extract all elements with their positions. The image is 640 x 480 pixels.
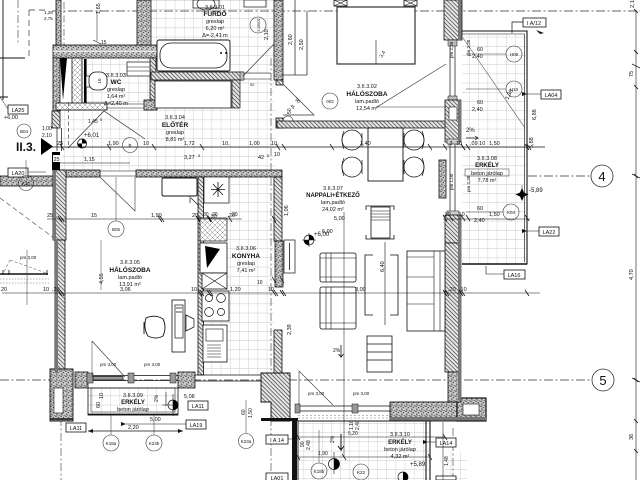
wall bedroom02-living: [277, 121, 447, 128]
wall neighbor band left: [0, 176, 53, 186]
svg-text:2,10: 2,10: [264, 29, 270, 40]
svg-text:LA14: LA14: [440, 441, 453, 447]
dim chain hallway y147: [42, 141, 545, 150]
svg-text:LA25: LA25: [12, 108, 25, 114]
svg-text:Δ=-2,41 m: Δ=-2,41 m: [202, 33, 228, 39]
svg-text:1,50: 1,50: [489, 212, 500, 218]
dim rotated 1,06 kitchen: [284, 205, 290, 216]
terrace door frame: [295, 404, 390, 413]
svg-text:ERKÉLY: ERKÉLY: [388, 438, 412, 446]
wall south bedroom05 segment west: [75, 372, 88, 388]
svg-text:3,00: 3,00: [355, 287, 366, 293]
dim 50 rotated: [287, 108, 293, 114]
level mark +5,89 south: [398, 462, 426, 480]
svg-text:6,88: 6,88: [532, 109, 538, 120]
bubble H09: [466, 46, 522, 62]
sill dashes terrace: [298, 416, 443, 419]
svg-text:Δ=2,40 m: Δ=2,40 m: [104, 101, 128, 107]
wall east sand block: [448, 372, 461, 402]
wall hallway south right part: [136, 170, 282, 177]
svg-text:2%: 2%: [333, 348, 341, 354]
room label WC: [104, 73, 128, 107]
wall WC east / bath west: [150, 58, 156, 105]
svg-text:1,90: 1,90: [151, 213, 162, 219]
bubble K09 southeast: [436, 476, 456, 480]
floor tiles bathroom: [151, 0, 274, 74]
svg-text:1,06: 1,06: [284, 205, 290, 216]
svg-text:2,75: 2,75: [44, 16, 53, 21]
axis line top horizontal: [52, 10, 640, 12]
dim 5,08 text: [184, 394, 195, 400]
desk bedroom05: [172, 300, 194, 352]
svg-text:7,78 m²: 7,78 m²: [478, 178, 497, 184]
wall stair room left: [56, 0, 64, 52]
dim rotated 4,55 bedroom05: [99, 240, 105, 290]
svg-text:lam.padló: lam.padló: [118, 275, 142, 281]
window swing bedroom02 dashed: [377, 64, 446, 107]
svg-text:K04: K04: [507, 210, 516, 215]
bubble K18b: [311, 430, 327, 479]
svg-text:H09: H09: [510, 52, 519, 57]
door bedroom02 swing: [283, 84, 314, 126]
bubble B05 bedroom door: [108, 177, 124, 237]
svg-text:,3: ,3: [448, 141, 453, 147]
svg-text:1,28: 1,28: [44, 10, 53, 15]
armchair lower: [320, 287, 356, 329]
svg-text:K20: K20: [22, 181, 31, 186]
dim 5,00 bottom: [96, 393, 161, 423]
balcony south door frame posts: [426, 421, 453, 480]
svg-text:2,05/01: 2,05/01: [256, 18, 261, 32]
svg-text:pm 3,00: pm 3,00: [353, 391, 370, 396]
wall bedroom02 west upper: [276, 80, 283, 85]
pantry closet with lamp: [204, 177, 229, 203]
dim 92 bath door: [250, 82, 255, 87]
svg-text:2,60: 2,60: [288, 34, 294, 45]
svg-text:beton járólap: beton járólap: [117, 407, 149, 413]
neighbor balcony west edge: [0, 250, 49, 305]
door balcony09 swing: [92, 341, 125, 377]
svg-text:5,00: 5,00: [150, 417, 161, 423]
svg-text:LA19: LA19: [190, 423, 203, 429]
room label ERKELY09: [117, 393, 149, 413]
svg-text:10: 10: [274, 152, 280, 158]
svg-text:pm 2,38: pm 2,38: [449, 41, 454, 58]
svg-text:LA11: LA11: [192, 404, 204, 410]
wall piece right of WC door: [144, 100, 157, 110]
dim bottom right rotated: [443, 422, 450, 480]
wall stair room right: [137, 0, 151, 52]
svg-text:1,90: 1,90: [108, 141, 119, 147]
svg-text:WC: WC: [111, 79, 122, 86]
svg-text:B04: B04: [20, 129, 29, 134]
svg-text:3.II.3.08: 3.II.3.08: [477, 156, 497, 162]
dining chair bottom-left: [342, 157, 362, 177]
dim pm texts south: [100, 362, 370, 396]
wall west long: [53, 170, 66, 240]
svg-text:4: 4: [598, 169, 605, 184]
svg-text:K23b: K23b: [149, 441, 160, 446]
bench ladder: [367, 336, 392, 372]
svg-text:4,70: 4,70: [629, 269, 635, 280]
dim line balcony10: [296, 451, 432, 460]
shaft lines right of bathroom: [282, 0, 307, 75]
svg-text:greslap: greslap: [206, 19, 224, 25]
level mark +6,01 hallway: [78, 133, 100, 148]
svg-text:6,40: 6,40: [380, 261, 386, 272]
terrace door swing: [299, 371, 333, 405]
wall east pier lower: [445, 215, 461, 243]
svg-text:1,20: 1,20: [230, 287, 241, 293]
wall spur right of closet: [232, 80, 240, 108]
floor tiles balcony south: [298, 421, 430, 480]
svg-text:HÁLÓSZOBA: HÁLÓSZOBA: [109, 265, 150, 274]
tag LA11 south: [188, 401, 208, 410]
svg-text:1,50: 1,50: [489, 141, 500, 147]
door hallway-bedroom05 threshold: [100, 171, 136, 176]
room label KONYHA: [232, 246, 260, 274]
radiator living east: [439, 160, 446, 198]
bubble B04 left: [17, 124, 31, 138]
door WC threshold: [107, 104, 152, 108]
axis vertical bottom left: [60, 418, 62, 480]
axis 5 bubble: [592, 369, 614, 391]
svg-text:2,40: 2,40: [355, 420, 361, 430]
svg-text:LA16: LA16: [508, 273, 521, 279]
svg-text:10: 10: [456, 141, 462, 147]
svg-text:1,15: 1,15: [84, 157, 95, 163]
svg-text:2,10: 2,10: [42, 133, 52, 139]
svg-text:2%: 2%: [466, 128, 475, 134]
svg-text:60: 60: [477, 47, 483, 53]
tag IA12: [512, 18, 546, 34]
bed bedroom02: [337, 7, 415, 64]
svg-text:2,20: 2,20: [128, 425, 139, 431]
svg-text:LA01: LA01: [271, 476, 284, 480]
dim bubble hallway circle: [123, 138, 138, 153]
wall east pier mid: [445, 100, 461, 142]
svg-text:3.II.3.06: 3.II.3.06: [236, 246, 256, 252]
room label NAPPALI: [306, 186, 360, 213]
dim balcony east lower: [443, 206, 530, 224]
svg-text:+5,89: +5,89: [410, 462, 426, 468]
svg-text:lam.padló: lam.padló: [321, 200, 345, 206]
svg-text:pm 3,00: pm 3,00: [144, 362, 161, 367]
floor tiles WC: [82, 58, 150, 104]
svg-text:10: 10: [257, 280, 263, 286]
kitchen radiator door: [284, 240, 295, 273]
svg-text:LA22: LA22: [543, 230, 556, 236]
svg-text:I A/12: I A/12: [527, 21, 541, 27]
slope arrow living south: [333, 345, 344, 357]
svg-text:60: 60: [477, 100, 483, 106]
coffee table: [365, 242, 398, 325]
svg-text:B05: B05: [112, 227, 121, 232]
svg-text:LA11: LA11: [70, 426, 82, 432]
wall bedroom02 west lower stub: [276, 118, 283, 128]
svg-text:2%: 2%: [330, 435, 336, 443]
dim rotated 2,10 bath door: [264, 29, 270, 40]
wall bathroom east: [274, 0, 283, 80]
bubble 205 bathroom: [250, 17, 266, 33]
right edge dimension line: [629, 0, 640, 480]
dim 2,20 balcony09: [88, 425, 183, 433]
svg-text:,10: ,10: [457, 212, 465, 218]
dashed door axis line: [68, 102, 70, 147]
wall kitchen east upper: [274, 177, 283, 287]
wall east segment top: [444, 0, 462, 40]
tag LA04: [522, 90, 561, 99]
slope arrow balcony10: [330, 434, 344, 450]
axis 4 bubble: [591, 165, 613, 187]
wall pier south bedroom05: [178, 372, 195, 388]
svg-text:10: 10: [268, 287, 274, 293]
svg-text:1,40: 1,40: [360, 141, 371, 147]
door balcony09 frame: [87, 373, 178, 383]
wall west balcony corner L: [50, 369, 73, 421]
tag LA20: [8, 168, 46, 177]
wall west entrance top: [52, 111, 60, 128]
dim texts living vertical 5,00 6,00: [322, 212, 345, 457]
svg-text:pm 1,00: pm 1,00: [449, 173, 454, 190]
svg-text:FÜRDŐ: FÜRDŐ: [203, 9, 226, 18]
wall WC west: [72, 58, 87, 105]
svg-text:greslap: greslap: [107, 87, 125, 93]
dim 10 kitchen east wall: [257, 277, 284, 286]
room label FURDO: [202, 5, 228, 39]
axis vertical through kitchen: [270, 58, 272, 480]
svg-text:NAPPALI+ÉTKEZŐ: NAPPALI+ÉTKEZŐ: [306, 191, 360, 199]
insulation strip south wall east: [390, 417, 486, 421]
wall west long lower: [55, 240, 65, 373]
svg-text:5,08: 5,08: [184, 394, 195, 400]
svg-text:10: 10: [191, 287, 197, 293]
svg-text:20: 20: [232, 212, 238, 218]
balcony east slope diagonal: [463, 38, 525, 128]
tag LA16 east: [486, 266, 525, 279]
balcony south outline: [261, 420, 430, 480]
dim bottom mid rotated 60 150: [241, 408, 361, 450]
top small texts left: [44, 10, 53, 21]
toilet WC: [86, 72, 107, 90]
wall kitchen east lower: [274, 330, 282, 375]
svg-text:beton járólap: beton járólap: [384, 447, 416, 453]
svg-text:+6,01: +6,01: [84, 133, 100, 139]
svg-text:LA04: LA04: [545, 93, 558, 99]
svg-text:12,54 m²: 12,54 m²: [356, 106, 378, 112]
tag LA11 west: [66, 423, 86, 432]
svg-text:1,72: 1,72: [184, 141, 195, 147]
svg-text:36: 36: [629, 434, 635, 440]
svg-text:5,20: 5,20: [348, 431, 358, 437]
window east 2: [447, 139, 459, 216]
svg-text:60: 60: [477, 206, 483, 212]
svg-text:2,40: 2,40: [472, 107, 483, 113]
svg-text:25: 25: [57, 141, 63, 147]
svg-text:II.3.: II.3.: [16, 140, 36, 154]
svg-text:ERKÉLY: ERKÉLY: [475, 161, 499, 169]
nightstand left: [334, 0, 347, 6]
dim second row hallway: [60, 152, 280, 163]
svg-text:30: 30: [203, 212, 209, 218]
svg-text:1,45: 1,45: [88, 119, 98, 125]
svg-text:60: 60: [241, 409, 247, 415]
bathtub: [157, 40, 230, 71]
svg-text:,09 10: ,09 10: [470, 141, 485, 147]
svg-text:K23a: K23a: [241, 439, 252, 444]
svg-text:pm 3,00: pm 3,00: [308, 391, 325, 396]
svg-text:ELŐTÉR: ELŐTÉR: [162, 120, 189, 129]
chair bedroom05: [144, 316, 165, 338]
svg-text:3.II.3.02: 3.II.3.02: [357, 84, 377, 90]
svg-text:1,90: 1,90: [318, 451, 328, 457]
svg-text:B: B: [128, 143, 131, 148]
wash basin: [193, 0, 219, 10]
armchair upper: [320, 253, 356, 282]
kitchen counter low: [203, 325, 227, 362]
wall WC south: [56, 103, 107, 110]
svg-text:-5,89: -5,89: [529, 188, 543, 194]
dim chain bedroom05 y219: [47, 213, 242, 222]
level marker balcony09: [162, 394, 178, 416]
svg-text:2,40: 2,40: [474, 218, 485, 224]
svg-text:+6,00: +6,00: [4, 115, 18, 121]
svg-text:K22: K22: [357, 470, 366, 475]
projection dashed diagonal upper left: [0, 198, 58, 241]
bubble K22: [353, 464, 369, 480]
balcony southwest outline: [88, 388, 178, 415]
svg-text:10: 10: [97, 78, 102, 84]
wall southeast corner cap: [457, 398, 486, 421]
svg-text:pm 2,38: pm 2,38: [466, 39, 471, 56]
axis 5 line horizontal: [0, 379, 592, 381]
floor tiles patch southeast: [445, 452, 467, 480]
tag LA19: [121, 420, 206, 429]
bubble K23a: [239, 400, 254, 449]
dim pm rotated east: [449, 39, 471, 192]
svg-text:60: 60: [96, 402, 102, 408]
dim balcony east vertical 5,88: [529, 109, 538, 148]
svg-text:42: 42: [258, 155, 264, 161]
wall west beside WC: [53, 58, 60, 111]
svg-text:10: 10: [43, 287, 49, 293]
wall kitchen west: [198, 177, 204, 375]
svg-text:KONYHA: KONYHA: [232, 253, 260, 260]
svg-text:1,48: 1,48: [444, 456, 450, 466]
kitchen boiler square: [200, 218, 227, 273]
svg-text:10: 10: [143, 141, 149, 147]
svg-text:2%: 2%: [154, 394, 160, 402]
svg-text:,30: ,30: [52, 287, 60, 293]
hallway wardrobe: [162, 178, 199, 206]
svg-text:3.II.3.07: 3.II.3.07: [323, 186, 343, 192]
svg-text:ERKÉLY: ERKÉLY: [121, 398, 145, 406]
svg-text:25: 25: [54, 157, 60, 163]
svg-text:,20: ,20: [448, 287, 456, 293]
svg-text:2,48: 2,48: [306, 440, 312, 450]
level marker dot south balcony: [329, 452, 340, 474]
axis 4 line horizontal: [528, 175, 591, 177]
axis vertical top left stub: [17, 0, 19, 44]
svg-text:20: 20: [1, 287, 7, 293]
svg-text:beton járólap: beton járólap: [471, 171, 503, 177]
dining chair bottom-right: [404, 157, 424, 177]
dining chair top-left: [342, 130, 362, 150]
svg-text:3.II.3.04: 3.II.3.04: [165, 115, 185, 121]
door bedroom05 swing: [100, 177, 135, 211]
svg-text:3,27: 3,27: [184, 155, 195, 161]
kitchen stove: [202, 291, 229, 321]
level mark +6,00 living: [302, 232, 330, 247]
tag LA22: [522, 227, 559, 236]
svg-text:lam.padló: lam.padló: [355, 99, 379, 105]
tv cabinet: [366, 206, 394, 239]
room label ERKELY08: [465, 156, 509, 184]
tag LA01 bottom: [266, 473, 288, 480]
dim rotated 2,60 shaft: [288, 34, 294, 45]
svg-text:1,00: 1,00: [42, 126, 52, 132]
dim 30 20 pantry: [203, 212, 238, 218]
tag IA14 mid: [266, 435, 298, 444]
door entrance leaf black: [52, 128, 62, 170]
svg-text:greslap: greslap: [237, 261, 255, 267]
svg-text:5: 5: [599, 373, 606, 388]
wall corner south mid L: [261, 373, 290, 421]
left edge fragments: [0, 0, 46, 100]
svg-text:4,55: 4,55: [99, 273, 105, 284]
svg-text:25: 25: [47, 213, 53, 219]
kitchen sink crossed: [202, 273, 227, 289]
svg-text:I A 14: I A 14: [270, 438, 284, 444]
room label ERKELY10: [384, 432, 416, 460]
balcony east outline: [462, 31, 527, 264]
dim rotated 2,39 kitchen: [287, 324, 293, 335]
svg-text:6,00: 6,00: [322, 229, 333, 235]
svg-text:HÁLÓSZOBA: HÁLÓSZOBA: [346, 89, 387, 98]
apartment entry label II.3.: [16, 138, 53, 155]
dim chain long y293: [1, 287, 540, 296]
dining table: [368, 128, 403, 181]
svg-text:K18a: K18a: [106, 441, 117, 446]
svg-text:3.II.3.05: 3.II.3.05: [120, 260, 140, 266]
svg-text:6,20 m²: 6,20 m²: [206, 26, 225, 32]
insulation wedge black: [60, 58, 67, 100]
floor tiles kitchen: [201, 177, 274, 375]
bubble K18a: [103, 415, 119, 451]
svg-text:15: 15: [101, 40, 107, 46]
room label ELOTER: [162, 115, 189, 143]
floor tiles hallway ELOTER: [60, 80, 276, 171]
wall hallway south: [57, 170, 100, 177]
svg-text:15: 15: [91, 213, 97, 219]
svg-text:8,81 m²: 8,81 m²: [166, 137, 185, 143]
dim balcony east upper texts: [472, 47, 483, 113]
dim rotated 2,50 shaft2: [299, 39, 305, 50]
window bedroom05 south: [195, 375, 261, 381]
svg-text:20,: 20,: [192, 213, 200, 219]
room label HALOSZOBA02: [346, 84, 387, 112]
wc shelf box: [127, 62, 150, 76]
wall WC north band: [53, 45, 157, 58]
door bathroom threshold: [240, 72, 271, 80]
dim 2pc balcony09: [154, 392, 166, 406]
sofa: [407, 251, 445, 331]
svg-text:20: 20: [212, 212, 218, 218]
svg-text:2,40: 2,40: [472, 54, 483, 60]
dining chair top-right: [404, 130, 424, 150]
svg-text:7,41 m²: 7,41 m²: [237, 268, 256, 274]
svg-text:2,50: 2,50: [299, 39, 305, 50]
